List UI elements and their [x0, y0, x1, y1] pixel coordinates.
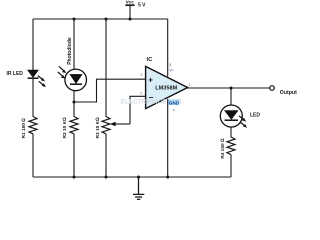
svg-text:IR LED: IR LED	[7, 71, 24, 77]
LED D1 IR LED symbol	[28, 70, 46, 87]
wire op-amp output	[188, 87, 270, 89]
svg-text:8: 8	[169, 63, 171, 67]
node junction top rail R3	[104, 17, 107, 20]
svg-text:R3 10 KΩ: R3 10 KΩ	[95, 117, 101, 139]
svg-text:R1 150 Ω: R1 150 Ω	[21, 118, 27, 139]
svg-text:Output: Output	[280, 90, 297, 96]
wire R2 leads	[73, 102, 75, 177]
resistor R1 zigzag	[29, 117, 37, 134]
wire LED to R4	[230, 127, 232, 137]
svg-text:Vcc: Vcc	[126, 0, 135, 5]
node junction top rail photodiode	[72, 17, 75, 20]
node junction R3 bottom rail	[104, 175, 107, 178]
node junction GND pin rail	[166, 175, 169, 178]
power supply Vcc symbol	[125, 5, 134, 19]
resistor R4 zigzag	[227, 137, 235, 155]
wire left rail middle	[32, 79, 34, 117]
wire photodiode top lead	[73, 19, 75, 69]
svg-text:Photodiode: Photodiode	[67, 37, 73, 65]
wire left rail upper	[32, 19, 34, 70]
svg-text:LED: LED	[250, 112, 260, 118]
resistor R2 zigzag	[70, 117, 78, 134]
node junction output LED branch	[229, 86, 232, 89]
svg-text:GND: GND	[169, 101, 180, 106]
svg-text:IC: IC	[147, 57, 154, 63]
ground symbol	[133, 177, 144, 199]
wire R4 bottom lead	[230, 155, 232, 177]
GND pin highlight	[167, 99, 179, 105]
wire V+ pin drop	[167, 19, 169, 77]
svg-text:+: +	[148, 75, 153, 84]
node junction top rail Vcc tap	[128, 17, 131, 20]
wire to non-inverting input	[74, 79, 145, 102]
node junction ground rail	[137, 175, 140, 178]
wire bottom rail	[33, 176, 231, 178]
svg-text:R2 10 KΩ: R2 10 KΩ	[62, 117, 68, 139]
wire R3 top lead	[105, 19, 107, 117]
wire GND pin to rail	[167, 99, 169, 177]
node junction R2 bottom rail	[72, 175, 75, 178]
wiper arrow to inverting input	[110, 96, 145, 126]
svg-text:3: 3	[141, 73, 143, 77]
node junction photodiode R2	[72, 100, 75, 103]
svg-text:R4 150 Ω: R4 150 Ω	[220, 138, 226, 159]
svg-text:2: 2	[140, 91, 142, 95]
wire R3 bottom lead	[105, 134, 107, 177]
wire LED top lead	[230, 88, 232, 105]
svg-text:1: 1	[189, 83, 191, 87]
svg-text:4: 4	[173, 108, 175, 112]
output terminal	[270, 86, 275, 91]
wire photodiode bottom lead	[73, 91, 75, 102]
svg-text:5 V: 5 V	[138, 2, 146, 8]
wire top rail Vcc	[33, 18, 168, 20]
photodiode D2 symbol	[58, 66, 87, 90]
op-amp U1 LM358M	[146, 57, 188, 109]
LED D3 output LED symbol	[220, 105, 247, 128]
wire left rail lower	[32, 134, 34, 177]
potentiometer R3 zigzag	[102, 117, 110, 134]
svg-text:LM358M: LM358M	[155, 86, 177, 92]
svg-text:V+: V+	[169, 69, 175, 73]
